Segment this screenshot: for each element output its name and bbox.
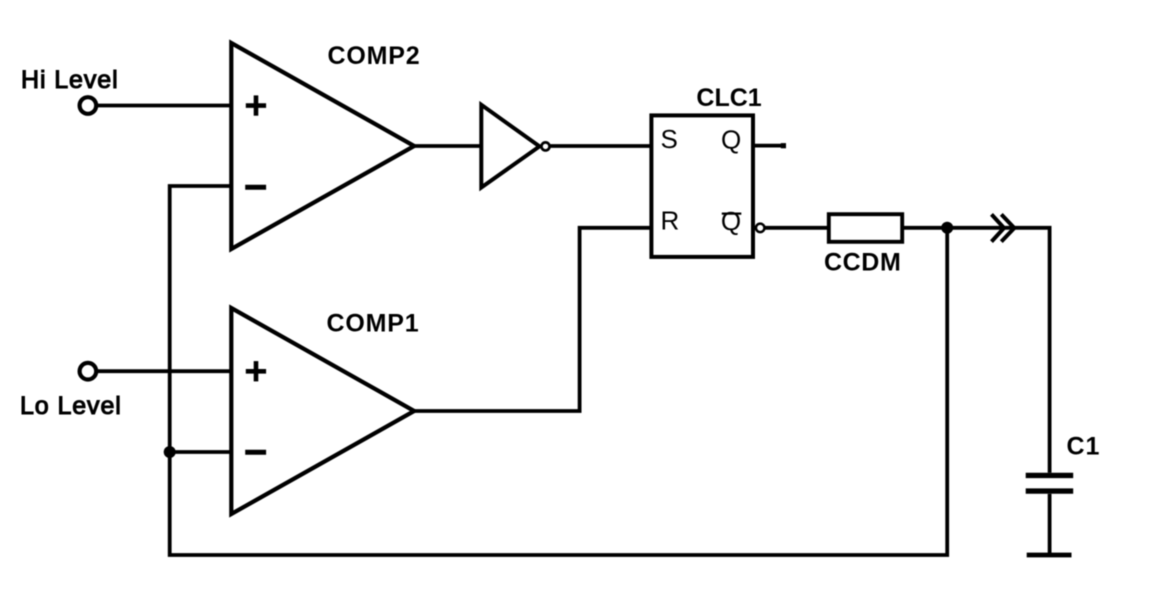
svg-text:Q: Q <box>721 124 741 154</box>
minus sign COMP2 inverting input <box>245 185 266 190</box>
wire junction to COMP1 - input <box>170 450 233 454</box>
svg-text:CCDM: CCDM <box>824 248 901 276</box>
wire Lo Level to COMP1 + <box>98 369 233 373</box>
Q output stub end nub <box>781 143 786 148</box>
svg-text:Lo Level: Lo Level <box>20 392 122 420</box>
svg-text:Hi Level: Hi Level <box>21 66 119 94</box>
op-amp COMP1 comparator body <box>231 308 414 514</box>
svg-text:Q: Q <box>721 206 741 236</box>
capacitor C1 bottom plate <box>1026 488 1074 493</box>
wire Hi Level to COMP2 + <box>98 104 233 108</box>
current direction chevron 1 <box>992 214 1005 241</box>
svg-text:CLC1: CLC1 <box>696 84 761 112</box>
plus sign COMP1 noninverting input <box>246 361 266 381</box>
svg-text:R: R <box>661 206 680 236</box>
wire C1 bottom plate to ground bar <box>1048 494 1052 554</box>
wire COMP1 output to CLC1 R input <box>412 228 653 411</box>
flip-flop CLC1 body <box>651 115 753 257</box>
minus sign COMP1 inverting input <box>245 450 266 455</box>
plus sign COMP2 noninverting input <box>246 95 266 115</box>
wire COMP2 output to inverter <box>412 144 483 148</box>
inverter output bubble <box>541 142 549 150</box>
svg-text:S: S <box>661 124 678 154</box>
op-amp COMP2 comparator body <box>231 43 414 249</box>
svg-text:COMP1: COMP1 <box>327 310 420 338</box>
terminal Lo Level input <box>80 363 97 380</box>
junction node at CCDM output <box>941 222 953 234</box>
wire CCDM to corner at C1 branch <box>902 228 1050 473</box>
bubble on Q-bar output <box>756 224 765 233</box>
wire Q output stub <box>753 144 786 148</box>
svg-text:COMP2: COMP2 <box>328 42 421 70</box>
overbar of Q-bar <box>722 213 742 215</box>
svg-text:C1: C1 <box>1067 432 1101 460</box>
ground terminal bar <box>1027 553 1072 558</box>
terminal Hi Level input <box>80 97 97 114</box>
resistor CCDM body <box>829 214 902 242</box>
current direction chevron 2 <box>1001 214 1014 241</box>
inverter U1 body <box>481 105 539 188</box>
junction node at COMP1 inverting tap <box>164 446 176 458</box>
wire inverter output to CLC1 S input <box>551 144 654 148</box>
wire Q-bar output to resistor CCDM <box>765 226 829 230</box>
feedback wire from junction down, across bottom, up to COMP2 inverting input <box>170 186 948 555</box>
capacitor C1 top plate <box>1026 473 1074 478</box>
